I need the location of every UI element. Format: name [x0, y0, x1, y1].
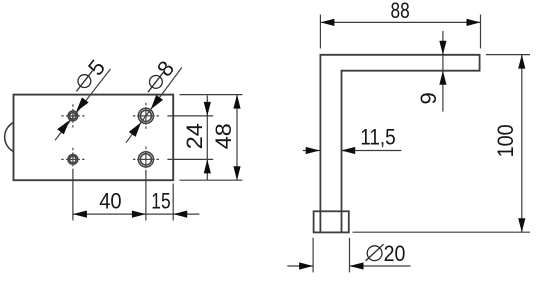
svg-text:24: 24: [182, 123, 207, 149]
svg-text:15: 15: [151, 188, 170, 213]
plate outline (left view): [14, 95, 174, 181]
extension line right of bottom hole row (24/48): [167, 158, 213, 160]
leader arrow upper (d8): [151, 95, 163, 110]
svg-text:20: 20: [384, 241, 406, 266]
dimension line 100: [521, 55, 523, 233]
arrow 48 top (pointing up): [233, 95, 240, 109]
svg-text:88: 88: [391, 0, 410, 23]
extension line 88 right: [480, 15, 482, 49]
hole bottom-left crosshair: [61, 158, 84, 160]
svg-text:48: 48: [211, 123, 236, 149]
dimension line 11,5 left tail: [303, 150, 320, 152]
extension line plate bottom edge (48): [180, 179, 243, 181]
dimension line 48: [236, 95, 238, 181]
extension line below left hole column (40): [72, 171, 74, 221]
leader line diameter 5: [55, 69, 111, 140]
label diameter symbol (d8): [148, 72, 164, 93]
leader arrow lower (d8): [129, 122, 141, 136]
extension line right of top hole row (24/48): [167, 115, 213, 117]
label diameter symbol (d20): [366, 244, 384, 261]
arrow 9 bottom (pointing up): [439, 71, 446, 85]
arrow 100 bottom (pointing down): [518, 218, 525, 232]
arrow 100 top (pointing up): [518, 55, 525, 69]
hole bottom-right crosshair: [133, 158, 159, 160]
leader line diameter 8: [126, 68, 182, 143]
cylinder foot outline (right view): [314, 211, 349, 232]
dimension line 24: [206, 96, 208, 181]
arrow 11,5 right (outside, pointing left): [341, 147, 355, 154]
extension line below plate right edge (15): [172, 184, 174, 221]
hole top-left crosshair: [61, 115, 84, 117]
arrow 24 top (outside, pointing down): [204, 102, 211, 116]
leader arrow lower (d5): [57, 120, 69, 134]
dimension line 11,5 right tail: [341, 150, 401, 152]
svg-text:5: 5: [83, 55, 110, 80]
hole bottom-left circles: [68, 155, 78, 165]
extension line d20 right: [349, 238, 351, 273]
arc boss on left edge of plate: [5, 123, 14, 152]
arrow d20 right (outside, pointing left): [350, 262, 364, 269]
svg-text:100: 100: [493, 124, 518, 157]
arrow 24 bottom (outside, pointing up): [204, 159, 211, 173]
dimension line d20 left tail: [287, 265, 313, 267]
L-bracket outline (right view): [320, 55, 479, 233]
arrow 88 right: [467, 19, 481, 26]
dimension line 88: [320, 21, 480, 23]
extension line plate top edge (48): [180, 94, 243, 96]
hole top-right crosshair: [133, 115, 159, 117]
arrow 11,5 left (outside, pointing right): [306, 147, 320, 154]
hole top-left circles: [68, 111, 78, 121]
arrow 88 left: [320, 19, 334, 26]
extension line 100 top: [486, 54, 530, 56]
arrow d20 left (outside, pointing right): [299, 262, 313, 269]
dimension line 9: [442, 31, 444, 112]
leader arrow upper (d5): [76, 97, 89, 111]
dimension line 40 / 15: [73, 213, 199, 215]
extension line below right hole column (40/15): [145, 171, 147, 221]
svg-text:40: 40: [99, 188, 121, 213]
arrow 48 bottom (pointing down): [233, 166, 240, 180]
extension line d20 left: [312, 238, 314, 273]
hole bottom-right circles: [138, 152, 153, 167]
arrow 40 left (pointing left): [73, 211, 87, 218]
extension line 88 left: [319, 15, 321, 49]
label diameter symbol (d5): [76, 71, 92, 92]
arrow 15 right (outside, pointing left): [173, 211, 187, 218]
arrow 9 top (pointing down): [439, 41, 446, 55]
hole top-right circles: [138, 108, 153, 123]
svg-text:9: 9: [416, 92, 441, 104]
svg-text:11,5: 11,5: [360, 124, 396, 149]
arrow 40 right (pointing right): [132, 211, 146, 218]
extension line 100 bottom: [353, 231, 531, 233]
dimension line d20 right tail: [350, 265, 411, 267]
